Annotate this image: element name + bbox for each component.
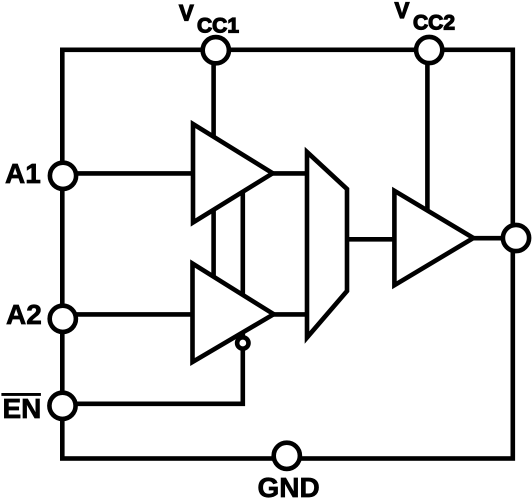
wire mux output [347,237,394,242]
mux U3 [307,152,347,338]
svg-text:CC1: CC1 [197,14,239,37]
wire A2 input [62,312,307,317]
wire buffer output to pin [473,236,516,241]
svg-text:V: V [395,0,410,23]
buffer U1 (A1 input buffer) [193,124,273,223]
wire EN net [62,180,243,404]
wire VCC2 feed [425,50,430,230]
pin A1 [50,163,76,189]
wire VCC1 feed [211,50,216,290]
svg-text:V: V [179,0,194,25]
outer boundary box [62,50,513,459]
svg-text:CC2: CC2 [413,12,455,35]
buffer U2 (A2 input buffer) [193,264,274,363]
wire A1 input [62,171,307,176]
pin VCC2 [416,37,442,63]
overline of EN [1,393,41,396]
pin A2 [50,306,76,332]
pin Y output [503,225,529,251]
enable bubble on U2 [237,337,248,348]
svg-text:A1: A1 [5,158,41,189]
buffer U4 (output buffer) [394,191,473,285]
svg-text:A2: A2 [6,299,42,330]
svg-text:GND: GND [258,472,320,498]
pin EN [49,393,75,419]
pin VCC1 [203,37,229,63]
svg-text:EN: EN [3,393,42,424]
pin GND [274,443,300,469]
